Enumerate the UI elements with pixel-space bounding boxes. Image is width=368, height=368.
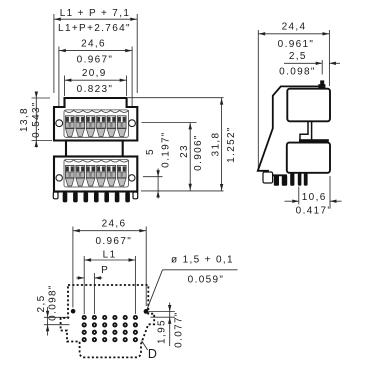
side view: contact strip (black) <box>299 139 329 142</box>
svg-text:2,5: 2,5 <box>36 295 47 313</box>
hole r2c1 <box>82 322 87 327</box>
svg-text:P: P <box>101 265 109 276</box>
svg-text:1.252": 1.252" <box>226 126 237 163</box>
dimension: 24,6 / 0.967" (front view) <box>59 39 132 112</box>
contact L5 <box>107 165 116 186</box>
svg-text:24,4: 24,4 <box>282 22 307 33</box>
side view: neck <box>300 121 308 139</box>
side view: left flange peg <box>263 172 273 183</box>
leader: ø 1,5 + 0,1 / 0.059" <box>147 254 238 310</box>
svg-text:0.967": 0.967" <box>77 54 114 65</box>
dimension: 23 / 0.906" <box>179 123 204 191</box>
drilling plan dotted outline <box>61 285 155 357</box>
svg-text:0.967": 0.967" <box>95 236 132 247</box>
contact U1 <box>66 116 75 137</box>
side view: upper clamp box <box>287 89 330 122</box>
svg-text:13,8: 13,8 <box>19 107 30 132</box>
front view: upper deck inner frame <box>64 110 129 137</box>
hole r3c5 <box>123 330 128 335</box>
dimension: 20,9 / 0.823" <box>65 68 127 96</box>
front view: solder pins (7) <box>63 192 68 202</box>
svg-text:0.197": 0.197" <box>161 131 172 168</box>
svg-text:0.823": 0.823" <box>77 84 114 95</box>
svg-text:1,95: 1,95 <box>157 319 168 344</box>
dimension: 31,8 / 1.252" <box>211 98 237 191</box>
hole r1c4 <box>112 315 117 320</box>
contact U3 <box>86 116 95 137</box>
dimension: 2,5 / 0.098" (side view latch) <box>279 51 340 78</box>
front view: upper deck mounting holes <box>56 120 63 127</box>
svg-text:0.098": 0.098" <box>279 67 316 78</box>
front view: lower deck scallops <box>65 160 129 162</box>
front view: lower deck mounting holes <box>56 175 62 181</box>
contact U4 <box>97 116 106 137</box>
dimension: 5 / 0.197" <box>145 131 172 198</box>
svg-text:31,8: 31,8 <box>211 132 222 157</box>
hole r4c3 <box>102 337 107 342</box>
dimension: L1 + P + 7,1 / L1 + P + 2.764" <box>54 8 137 93</box>
flange hole right (D) <box>144 309 149 314</box>
dimension: 2,5 / 0.098" (row pitch, left) <box>36 284 70 335</box>
hole r1c3 <box>102 315 107 320</box>
hole r3c1 <box>82 330 87 335</box>
dimension: 24,6 / 0.967" (drilling plan) <box>73 219 146 308</box>
front view: lower deck housing <box>54 157 137 192</box>
hole r4c4 <box>112 337 117 342</box>
svg-text:L1: L1 <box>103 250 117 261</box>
hole r1c5 <box>123 315 128 320</box>
hole r1c2 <box>92 315 97 320</box>
svg-text:L1+P+2.764": L1+P+2.764" <box>58 23 131 34</box>
svg-text:0.059": 0.059" <box>188 275 225 286</box>
svg-text:20,9: 20,9 <box>82 68 107 79</box>
front view: middle connecting box <box>66 141 123 157</box>
extension lines right of front view <box>128 97 224 99</box>
hole r3c6 <box>133 330 138 335</box>
contact L3 <box>86 165 95 186</box>
side view: lower box <box>287 143 330 173</box>
contact U2 <box>76 116 85 137</box>
hole r1c1 <box>82 315 87 320</box>
contact L6 <box>118 165 127 186</box>
svg-text:24,6: 24,6 <box>81 39 106 50</box>
svg-text:D: D <box>148 347 157 361</box>
contact U6 <box>118 116 127 137</box>
svg-text:23: 23 <box>179 144 190 158</box>
contact L4 <box>97 165 106 186</box>
hole r3c2 <box>92 330 97 335</box>
hole r2c2 <box>92 322 97 327</box>
hole r2c3 <box>102 322 107 327</box>
svg-text:0.077": 0.077" <box>174 311 185 348</box>
hole r4c5 <box>123 337 128 342</box>
hole r3c4 <box>112 330 117 335</box>
dimension: 24,4 / 0.961" (side view) <box>258 22 329 171</box>
contact L2 <box>76 165 85 186</box>
svg-text:0.961": 0.961" <box>278 39 315 50</box>
hole r4c6 <box>133 337 138 342</box>
front view: right flange peg <box>133 192 138 199</box>
side view: latch nub <box>320 80 324 85</box>
hole r4c2 <box>92 337 97 342</box>
side view: housing profile <box>258 86 319 175</box>
svg-text:ø 1,5 + 0,1: ø 1,5 + 0,1 <box>171 254 234 265</box>
svg-text:0.543": 0.543" <box>31 101 42 138</box>
front view: lower deck inner frame <box>64 160 129 188</box>
svg-text:0.906": 0.906" <box>193 134 204 171</box>
svg-text:24,6: 24,6 <box>102 219 127 230</box>
front view: left flange peg <box>53 192 58 199</box>
svg-text:0.417": 0.417" <box>296 205 333 216</box>
svg-text:10,6: 10,6 <box>302 192 327 203</box>
hole r4c1 <box>82 337 87 342</box>
dimension: P <box>76 265 109 314</box>
dimension: 10,6 / 0.417" <box>285 176 342 216</box>
front view: upper deck scallops <box>65 110 129 112</box>
dimension: L1 <box>84 250 135 314</box>
dimension: 1,95 / 0.077" (right of plan) <box>149 303 185 348</box>
flange hole left (D) <box>71 309 76 314</box>
dimension: 13,8 / 0.543" (left, vertical) <box>19 92 52 148</box>
hole r2c6 <box>133 322 138 327</box>
hole r3c3 <box>102 330 107 335</box>
svg-text:0.098": 0.098" <box>48 284 59 321</box>
side view: solder pins <box>274 175 279 186</box>
hole r1c6 <box>133 315 138 320</box>
contact U5 <box>107 116 116 137</box>
svg-text:5: 5 <box>145 148 156 155</box>
contact L1 <box>66 165 75 186</box>
hole r2c5 <box>123 322 128 327</box>
front view: upper deck housing <box>54 98 137 141</box>
svg-text:L1 + P + 7,1: L1 + P + 7,1 <box>60 8 131 19</box>
hole r2c4 <box>112 322 117 327</box>
svg-text:2,5: 2,5 <box>289 51 307 62</box>
label D with leader <box>142 341 157 362</box>
